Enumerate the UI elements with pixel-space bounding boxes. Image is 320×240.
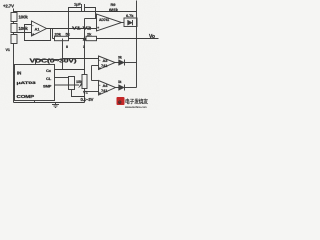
wire A4 inverting input <box>92 80 99 82</box>
wire A1 noninverting input <box>14 32 32 34</box>
resistor R1 100k <box>11 13 17 22</box>
resistor 20k <box>55 36 69 40</box>
wire left supply rail <box>13 9 15 103</box>
wire A3 inverting input <box>63 58 99 60</box>
wire output bus <box>136 1 138 88</box>
resistor 2k <box>86 36 97 40</box>
wire IN stub <box>14 72 15 74</box>
op-amp A2 <box>97 14 122 31</box>
op-amp A4 <box>99 81 116 96</box>
wire A1 feedback loop <box>25 25 51 41</box>
watermark logo <box>117 97 149 109</box>
wire capacitor left <box>69 8 82 39</box>
background <box>0 0 160 110</box>
resistor R2 100k <box>11 24 17 33</box>
wire COMP stub <box>14 95 15 97</box>
op-amp A1 <box>32 21 47 36</box>
wire CL line <box>55 77 69 79</box>
wire top rail <box>14 11 137 13</box>
wire inverting feed riser with arrow <box>84 19 86 103</box>
wire A3 noninverting input <box>92 65 99 67</box>
wire IC top stub <box>36 60 63 65</box>
wire 15k bottom <box>72 90 85 97</box>
scan noise texture <box>0 0 1 1</box>
wire A3/A4 link <box>91 66 93 81</box>
resistor R3 <box>11 35 17 44</box>
wire riser to 20k <box>52 29 54 39</box>
wire A4 noninverting input <box>85 91 99 93</box>
wire SMP line <box>55 84 80 86</box>
wire Cx line <box>55 69 85 71</box>
wire summing line <box>53 38 159 40</box>
diode VD2 <box>116 87 119 89</box>
wire capacitor right <box>85 8 96 19</box>
op-amp A3 <box>99 56 116 70</box>
wire Cx riser <box>62 39 64 70</box>
IC U1 box <box>15 65 55 101</box>
potentiometer RP <box>82 75 87 89</box>
wire IC bottom stub <box>34 101 36 103</box>
wire A1 output to A2 <box>47 28 97 30</box>
resistor 15k <box>69 77 75 90</box>
wire bottom rail <box>14 102 85 104</box>
wire A2 output <box>122 22 125 24</box>
diode box 6.7k <box>124 18 137 27</box>
ground <box>55 103 57 105</box>
wire A2 inverting input <box>85 18 97 20</box>
